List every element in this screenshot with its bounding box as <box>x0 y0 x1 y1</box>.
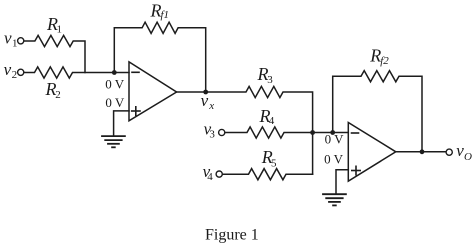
svg-text:4: 4 <box>269 115 275 127</box>
svg-text:v: v <box>201 91 209 110</box>
svg-text:2: 2 <box>12 69 18 81</box>
svg-text:f2: f2 <box>380 55 389 67</box>
svg-text:Figure 1: Figure 1 <box>205 227 259 244</box>
svg-text:0 V: 0 V <box>105 76 125 91</box>
svg-text:3: 3 <box>267 74 273 86</box>
svg-text:0 V: 0 V <box>325 131 345 146</box>
svg-text:v: v <box>4 28 12 47</box>
svg-text:4: 4 <box>207 171 213 183</box>
svg-text:1: 1 <box>12 37 18 49</box>
svg-text:0 V: 0 V <box>324 152 344 167</box>
svg-text:x: x <box>208 100 214 112</box>
svg-text:O: O <box>464 151 472 163</box>
svg-text:1: 1 <box>57 24 63 36</box>
svg-text:5: 5 <box>271 157 277 169</box>
svg-text:v: v <box>4 60 12 79</box>
svg-text:2: 2 <box>55 89 61 101</box>
svg-text:0 V: 0 V <box>105 95 125 110</box>
svg-text:f1: f1 <box>161 9 170 21</box>
svg-text:3: 3 <box>209 129 215 141</box>
